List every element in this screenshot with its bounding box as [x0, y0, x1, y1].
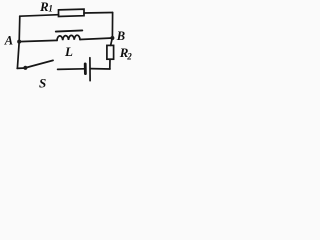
wire inductor to node B — [80, 38, 112, 40]
resistor R2 — [107, 45, 114, 59]
svg-text:S: S — [39, 75, 46, 90]
svg-text:2: 2 — [126, 52, 132, 62]
battery short plate (negative) — [84, 64, 87, 74]
node A junction dot — [17, 40, 21, 44]
svg-text:A: A — [4, 34, 13, 48]
wire battery to switch contact — [58, 68, 85, 71]
wire right vertical to node B — [111, 13, 113, 38]
svg-text:1: 1 — [48, 4, 53, 14]
inductor core bar — [56, 30, 83, 31]
node B junction dot — [110, 36, 114, 40]
svg-text:L: L — [64, 44, 73, 59]
resistor R1 — [59, 9, 85, 16]
wire node B to R2 top — [111, 38, 113, 45]
wire bottom-right horizontal — [91, 68, 110, 70]
battery long plate (positive) — [89, 58, 91, 81]
wire bottom-left segment — [17, 67, 25, 69]
wire left vertical — [17, 16, 19, 68]
switch pivot junction dot — [23, 66, 27, 70]
wire node A to inductor — [19, 40, 57, 41]
inductor L coil — [57, 35, 80, 40]
wire R2 bottom stub — [109, 59, 111, 69]
svg-text:B: B — [116, 29, 125, 43]
wire top-right horizontal — [84, 12, 113, 15]
wire top-left horizontal — [20, 15, 59, 17]
switch S blade — [26, 60, 53, 67]
